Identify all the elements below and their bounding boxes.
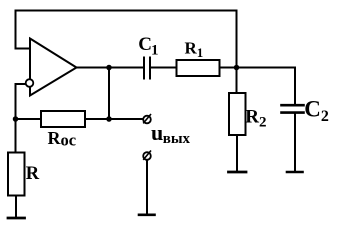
wire C2 to ground	[294, 114, 296, 171]
svg-text:R2: R2	[245, 106, 266, 130]
ground under R	[8, 217, 25, 220]
terminal upper output	[143, 114, 151, 123]
wire node to C2 branch	[237, 67, 296, 69]
node Roc right junction	[106, 116, 112, 122]
svg-text:Rос: Rос	[48, 128, 77, 150]
label C1	[138, 34, 158, 59]
resistor R2	[229, 93, 246, 135]
ground under R2	[229, 171, 247, 174]
capacitor C2	[282, 105, 304, 112]
svg-text:R: R	[26, 164, 40, 184]
wire R1 to node	[220, 67, 237, 69]
op-amp inverting bubble	[26, 79, 34, 87]
svg-text:C2: C2	[304, 97, 329, 126]
wire Roc right to terminal	[85, 118, 143, 120]
terminal lower output	[143, 151, 151, 160]
svg-text:uвых: uвых	[151, 120, 191, 147]
node inverting junction	[13, 116, 19, 122]
wire R to ground	[15, 196, 17, 217]
wire C1 to R1	[151, 67, 177, 69]
svg-text:C1: C1	[138, 34, 158, 59]
wire lower terminal to ground	[146, 160, 148, 213]
label u_vyh	[151, 120, 191, 147]
wire right vertical from top	[236, 11, 238, 68]
label R	[26, 164, 40, 184]
svg-text:R1: R1	[185, 39, 204, 61]
ground under lower terminal	[139, 214, 155, 217]
wire R2 to ground	[236, 135, 238, 171]
resistor Roc	[41, 111, 85, 127]
resistor R1	[177, 60, 220, 76]
wire top feedback	[16, 10, 237, 12]
node output junction	[106, 65, 112, 71]
wire left vertical lower	[15, 84, 17, 153]
label R2	[245, 106, 266, 130]
node feedback junction	[234, 65, 240, 71]
ground under C2	[287, 171, 303, 174]
wire inverting input	[16, 83, 27, 85]
label R1	[185, 39, 204, 61]
wire output to Roc branch	[108, 68, 110, 120]
wire Roc left	[16, 118, 42, 120]
capacitor C1	[144, 57, 150, 80]
wire non-inverting input	[16, 48, 31, 50]
wire left vertical upper	[15, 11, 17, 49]
label Roc	[48, 128, 77, 150]
op-amp U1	[30, 39, 77, 96]
wire node to R2	[236, 68, 238, 94]
label C2	[304, 97, 329, 126]
wire C2 branch vertical	[294, 68, 296, 105]
wire op-amp output	[77, 67, 144, 69]
resistor R	[8, 153, 25, 196]
